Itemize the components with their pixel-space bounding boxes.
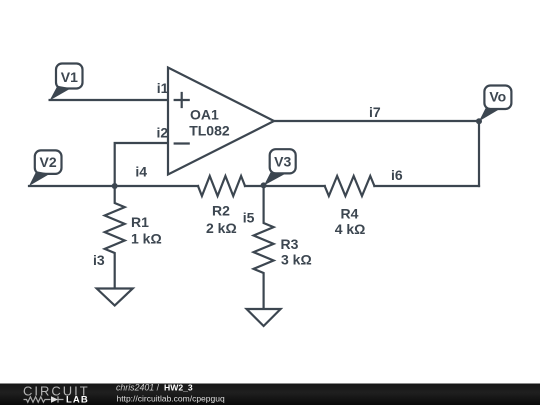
svg-text:i5: i5 [243, 210, 255, 226]
wire main horizontal V2 to R2 [29, 185, 198, 187]
op-amp U1 triangle [168, 68, 274, 175]
wire R4 to right vertical [374, 185, 479, 187]
ground for R3 [247, 309, 281, 326]
svg-text:OA1: OA1 [190, 107, 219, 123]
op-amp plus input symbol [175, 93, 189, 107]
svg-text:4 kΩ: 4 kΩ [335, 221, 366, 237]
node Vo junction dot [476, 118, 482, 124]
svg-text:LAB: LAB [66, 394, 89, 405]
svg-text:i7: i7 [369, 104, 381, 120]
svg-text:R3: R3 [281, 236, 299, 252]
svg-text:i1: i1 [157, 80, 169, 96]
footer logo diode triangle [51, 396, 58, 403]
svg-text:http://circuitlab.com/cpepguq: http://circuitlab.com/cpepguq [117, 394, 225, 404]
flag V3 box [264, 149, 296, 185]
svg-text:V1: V1 [61, 69, 78, 85]
wire node A up to inverting input [115, 143, 168, 186]
svg-text:2 kΩ: 2 kΩ [206, 220, 237, 236]
svg-text:1 kΩ: 1 kΩ [131, 231, 162, 247]
wire right vertical feedback [478, 121, 480, 186]
resistor R2 body [198, 176, 245, 196]
resistor R1 body [105, 186, 125, 289]
svg-text:R2: R2 [212, 203, 230, 219]
node V3 junction dot [261, 182, 267, 188]
svg-text:i3: i3 [93, 252, 105, 268]
resistor R3 body [254, 186, 274, 309]
svg-text:R4: R4 [341, 206, 359, 222]
footer bar [0, 384, 540, 406]
svg-text:i6: i6 [391, 167, 403, 183]
resistor R4 body [325, 176, 375, 196]
wire V1 to op-amp non-inverting input [50, 99, 168, 101]
svg-text:i4: i4 [135, 164, 147, 180]
svg-text:chris2401 / HW2_3: chris2401 / HW2_3 [116, 382, 193, 392]
svg-text:3 kΩ: 3 kΩ [281, 252, 312, 268]
svg-text:i2: i2 [157, 125, 169, 141]
svg-text:V2: V2 [40, 154, 57, 170]
wire R2 to node V3 to R4 [245, 185, 325, 187]
svg-text:V3: V3 [274, 153, 291, 169]
flag V2 box [29, 150, 62, 186]
node A junction dot [112, 183, 118, 189]
svg-text:Vo: Vo [489, 89, 506, 105]
svg-text:TL082: TL082 [189, 123, 230, 139]
svg-text:R1: R1 [131, 214, 149, 230]
flag Vo box [479, 86, 511, 122]
ground for R1 [97, 289, 133, 306]
footer logo resistor-diode glyph [24, 396, 64, 402]
op-amp minus input symbol [175, 142, 189, 144]
wire op-amp output to node Vo [274, 120, 479, 122]
flag V1 box [50, 64, 83, 101]
